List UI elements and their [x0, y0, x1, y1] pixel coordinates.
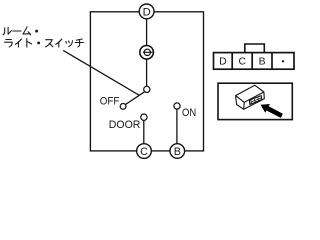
pivot contact: [144, 86, 150, 92]
socket front face edges: [249, 100, 251, 105]
arrow pointing at connector: [261, 104, 283, 118]
connector pin table tab: [245, 44, 264, 53]
svg-text:B: B: [259, 57, 266, 68]
svg-text:ON: ON: [182, 107, 196, 119]
OFF contact: [120, 104, 126, 110]
label ライト・スイッチ (light switch) line 2: [5, 39, 84, 47]
socket block outer: [249, 96, 261, 105]
top face front edges: [236, 92, 264, 102]
svg-text:OFF: OFF: [100, 95, 120, 107]
terminal C: [137, 144, 152, 159]
svg-text:C: C: [238, 57, 246, 68]
wire D to lamp: [146, 19, 148, 46]
wire DOOR contact to C: [143, 120, 145, 144]
connector pin table: [214, 53, 295, 70]
terminal D: [139, 4, 154, 19]
front-left vertical edge: [243, 102, 246, 109]
body outline: [236, 85, 265, 109]
leader line from label to switch lever: [63, 50, 139, 95]
socket grid: [252, 98, 262, 103]
terminal B: [170, 144, 185, 159]
switch body box: [90, 12, 203, 151]
pin dot marker: [282, 60, 285, 63]
wire lamp to pivot: [146, 59, 148, 87]
lamp (bulb) symbol: [140, 46, 154, 60]
svg-text:D: D: [219, 57, 227, 68]
svg-text:D: D: [143, 7, 151, 19]
connector 3d drawing: [236, 85, 265, 109]
label ルーム・ (room) line 1 of ルーム・ライト・スイッチ: [3, 27, 38, 35]
svg-text:DOOR: DOOR: [109, 119, 141, 131]
wire ON contact to B: [176, 109, 178, 144]
svg-text:B: B: [174, 146, 181, 158]
ON contact: [174, 103, 180, 109]
connector icon box: [218, 83, 292, 119]
DOOR contact: [141, 114, 147, 120]
svg-text:C: C: [140, 146, 148, 158]
switch lever (pivot to OFF contact): [126, 92, 145, 105]
